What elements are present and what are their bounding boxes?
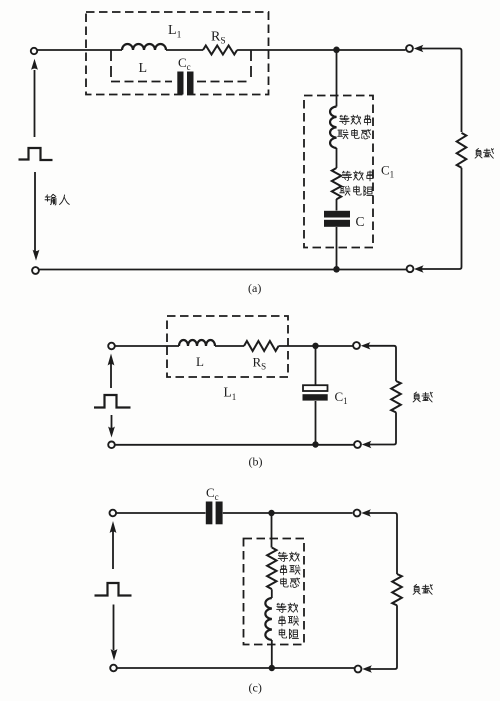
svg-text:(c): (c) xyxy=(249,681,262,695)
wire (c) bottom xyxy=(271,640,273,668)
wire xyxy=(336,148,338,168)
dashed box C1 (a) xyxy=(304,96,373,248)
svg-text:C1: C1 xyxy=(381,163,394,180)
svg-text:Cc: Cc xyxy=(178,55,191,72)
input arrow lower (c) xyxy=(113,605,115,651)
terminal top-left (b) xyxy=(108,343,115,350)
wire C1 branch bottom (b) xyxy=(315,401,317,445)
arrowhead up (b) xyxy=(108,354,115,366)
junction bottom (c) xyxy=(269,665,275,671)
label 等效串 line1 (a) xyxy=(340,115,350,124)
resistor eq (c) xyxy=(267,548,276,590)
arrowhead left bottom (a) xyxy=(414,265,424,272)
wire dashed from Cc xyxy=(197,81,251,83)
wire branch right of Cc xyxy=(250,50,252,82)
svg-text:C: C xyxy=(356,214,365,229)
input arrow upper (c) xyxy=(112,530,114,569)
wire Cc to junction (c) xyxy=(223,512,353,514)
label 串联 line5 (c) xyxy=(279,616,285,626)
junction node top (a) xyxy=(333,47,340,54)
label 联电阻 line4 (a) xyxy=(340,186,350,195)
svg-text:L1: L1 xyxy=(224,385,237,403)
pulse symbol (a) xyxy=(19,148,53,160)
svg-text:L: L xyxy=(196,354,204,369)
dashed box L1 (a) xyxy=(86,12,269,95)
wire bottom (c) xyxy=(116,667,354,669)
input arrow line lower (a) xyxy=(34,172,36,251)
junction node bottom (a) xyxy=(333,266,340,273)
capacitor Cc plates (c) xyxy=(206,502,213,525)
arrowhead left top (c) xyxy=(361,509,371,516)
capacitor Cc plates (a) xyxy=(177,72,183,95)
label 联电感 line2 (a) xyxy=(338,130,348,139)
dashed box L1 (b) xyxy=(167,316,288,377)
terminal bottom-right (a) xyxy=(407,265,414,272)
terminal bottom-left (a) xyxy=(32,267,39,274)
svg-text:Cc: Cc xyxy=(206,485,219,502)
label 串联 line2 (c) xyxy=(280,565,286,575)
arrowhead left top (b) xyxy=(361,342,371,349)
junction bottom (b) xyxy=(312,441,318,447)
svg-text:L: L xyxy=(139,61,148,76)
svg-text:(b): (b) xyxy=(249,455,263,469)
arrowhead down (a) xyxy=(33,250,40,261)
resistor RS (b) xyxy=(244,341,279,351)
junction top (c) xyxy=(268,510,274,516)
inductor L (a) xyxy=(122,44,166,50)
wire dashed to Cc xyxy=(111,81,172,83)
capacitor C1 plate top (b) xyxy=(303,385,328,391)
arrowhead down (b) xyxy=(108,427,115,438)
arrowhead left top (a) xyxy=(414,45,424,52)
resistor RS (a) xyxy=(203,46,237,55)
wire arrow to load top (b) xyxy=(369,346,397,381)
label 等效 line4 (c) xyxy=(277,603,287,612)
label 等效 line1 (c) xyxy=(278,552,288,561)
wire xyxy=(336,199,338,211)
wire top (a) xyxy=(38,49,123,51)
wire branch C1 top xyxy=(336,50,338,107)
capacitor C1 plate bottom (b) xyxy=(303,394,328,400)
arrowhead up (a) xyxy=(31,59,38,70)
junction top (b) xyxy=(312,343,318,349)
svg-text:(a): (a) xyxy=(248,281,261,295)
label 负载 (b) xyxy=(413,392,420,402)
label 电感 line3 (c) xyxy=(281,578,288,587)
arrowhead left bottom (c) xyxy=(362,665,372,672)
wire load bottom (c) xyxy=(370,605,397,669)
terminal top-right (c) xyxy=(354,510,361,517)
svg-text:L1: L1 xyxy=(168,23,182,41)
svg-text:RS: RS xyxy=(211,30,226,47)
terminal bottom-left (c) xyxy=(110,665,117,672)
svg-text:C1: C1 xyxy=(335,389,348,406)
wire load bottom (b) xyxy=(370,412,397,444)
terminal bottom-right (c) xyxy=(355,666,362,673)
label 电阻 line6 (c) xyxy=(279,629,286,638)
wire branch left of Cc xyxy=(110,50,112,81)
arrowhead up (c) xyxy=(110,521,117,533)
svg-text:RS: RS xyxy=(253,355,267,372)
inductor L (b) xyxy=(179,340,215,346)
wire branch (c) top xyxy=(271,513,273,548)
terminal top-right (b) xyxy=(353,342,360,349)
wire (c) xyxy=(271,589,273,598)
pulse symbol (b) xyxy=(94,395,131,408)
wire bottom (b) xyxy=(115,444,354,446)
arrowhead left bottom (b) xyxy=(362,441,372,448)
wire arrow to load top (a) xyxy=(422,49,462,133)
dashed box (c) xyxy=(244,539,305,645)
input arrow line upper (a) xyxy=(34,70,36,137)
input arrow upper (b) xyxy=(110,362,112,388)
wire xyxy=(166,49,203,51)
wire top-left (b) xyxy=(115,345,179,347)
pulse symbol (c) xyxy=(95,583,132,596)
load resistor (a) xyxy=(457,133,467,168)
terminal top-left (c) xyxy=(110,510,117,517)
wire load bottom (a) xyxy=(422,168,462,269)
wire C1 branch top (b) xyxy=(315,346,317,385)
load resistor (c) xyxy=(392,574,402,605)
label 输入 xyxy=(45,194,56,205)
wire (b) xyxy=(215,345,244,347)
wire arrow to load top (c) xyxy=(369,513,397,574)
terminal top-left (a) xyxy=(31,48,37,54)
label 负载 (a) xyxy=(475,148,482,158)
wire to right terminal xyxy=(237,49,405,51)
input arrow lower (b) xyxy=(111,415,113,429)
label 等效串 line3 (a) xyxy=(342,171,352,180)
load resistor (b) xyxy=(391,381,401,412)
arrowhead down (c) xyxy=(111,649,118,661)
wire top-left (c) xyxy=(116,512,206,514)
terminal bottom-right (b) xyxy=(354,441,361,448)
wire to right terminal (b) xyxy=(279,345,353,347)
terminal bottom-left (b) xyxy=(108,442,115,449)
wire bottom (a) xyxy=(39,269,406,271)
terminal top-right (a) xyxy=(406,45,413,52)
inductor eq series (a) xyxy=(330,107,336,149)
wire below C (a) xyxy=(336,227,338,270)
resistor eq series (a) xyxy=(332,168,341,199)
capacitor C plates (a) xyxy=(324,211,350,218)
inductor eq (c) xyxy=(265,598,271,640)
label 负载 (c) xyxy=(413,584,420,594)
